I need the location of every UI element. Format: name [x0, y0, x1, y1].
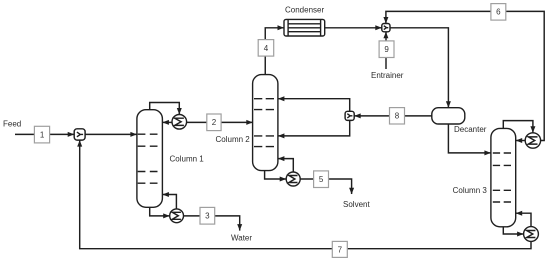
wire Column 1 bottoms to reboiler E2 — [150, 206, 170, 216]
condenser E1 (Column 1 overhead exchanger) — [172, 115, 187, 130]
wire reflux E3 to Column 3 — [516, 140, 526, 142]
mixer B2 (entrainer/recycle mixer) — [382, 24, 390, 32]
stream box 7 — [332, 241, 347, 257]
svg-text:Feed: Feed — [3, 119, 21, 128]
splitter S1 (decanter recycle splitter) — [345, 111, 354, 120]
arrowhead into mixer B2 left — [375, 25, 382, 30]
svg-text:5: 5 — [319, 175, 324, 184]
arrowhead stream 8 into splitter S1 — [354, 113, 361, 118]
stream box 9 — [379, 41, 394, 58]
svg-text:4: 4 — [264, 44, 269, 53]
arrowhead into condenser E3 top — [530, 126, 535, 133]
arrowhead decanter bottoms into Column 3 — [484, 150, 491, 155]
reboiler E4 (Column 3) — [524, 227, 539, 242]
arrowhead stream 3 down to Water — [237, 224, 242, 231]
wire vapor return E5 to Column 2 — [278, 159, 293, 173]
wire Entrainer stream 9 to mixer B2 — [385, 32, 387, 69]
wire distillate E1 through stream 2 to Column 2 — [187, 121, 253, 123]
svg-text:Entrainer: Entrainer — [371, 71, 404, 80]
stream box 5 — [314, 171, 329, 188]
svg-text:2: 2 — [212, 118, 217, 127]
wire mixer B1 to Column 1 — [85, 133, 137, 135]
wire Column 2 bottoms to reboiler E5 — [265, 169, 287, 179]
stream box 3 — [200, 207, 215, 224]
svg-text:Water: Water — [231, 233, 252, 242]
arrowhead vapor return into Column 2 — [278, 156, 285, 161]
wire reflux E1 to Column 1 — [162, 121, 172, 123]
arrowhead into reboiler E5 left — [280, 177, 287, 182]
column C3 trays — [493, 153, 511, 202]
arrowhead into Decanter top — [446, 101, 451, 108]
arrowhead vapor return into Column 1 — [162, 192, 169, 197]
svg-text:8: 8 — [395, 112, 400, 121]
svg-text:Decanter: Decanter — [454, 125, 487, 134]
wire Column 3 overhead to condenser E3 — [503, 121, 533, 133]
stream box 4 — [258, 40, 274, 57]
arrowhead stream 5 down to Solvent — [349, 188, 354, 195]
wire feed to mixer B1 — [15, 133, 74, 135]
column C2 vessel — [253, 75, 278, 171]
arrowhead into reboiler E4 left — [517, 232, 524, 237]
wire vapor return E4 to Column 3 — [516, 213, 531, 227]
svg-text:Column 2: Column 2 — [216, 135, 251, 144]
wire Decanter through stream 8 to splitter S1 — [354, 115, 432, 117]
reboiler E2 (Column 1) — [170, 209, 184, 223]
svg-text:Solvent: Solvent — [343, 200, 370, 209]
arrowhead into condenser E1 top — [177, 108, 182, 115]
arrowhead into Condenser left — [278, 25, 285, 30]
stream box 1 — [34, 126, 49, 143]
wire mixer B2 to Decanter — [390, 28, 448, 108]
wire splitter S1 upper branch to Column 2 — [278, 99, 350, 112]
mixer B1 (feed mixer) — [74, 129, 85, 140]
arrowhead upper branch into Column 2 — [278, 96, 285, 101]
arrowhead stream 2 into Column 2 — [246, 120, 253, 125]
svg-text:9: 9 — [384, 45, 389, 54]
column C1 vessel — [137, 110, 163, 208]
wire E4 bottoms recycle stream 7 to mixer B1 — [80, 140, 531, 249]
arrowhead stream 6 into mixer B2 top — [383, 17, 388, 24]
wire Column 1 overhead to condenser E1 — [150, 103, 180, 115]
column C2 trays — [254, 99, 274, 147]
arrowhead reflux into Column 1 — [162, 120, 169, 125]
wire E5 through stream 5 to Solvent — [300, 179, 351, 194]
arrowhead entrainer into mixer B2 bottom — [383, 32, 388, 39]
wire E2 through stream 3 to Water — [184, 216, 240, 231]
svg-text:1: 1 — [40, 131, 45, 140]
svg-text:3: 3 — [205, 212, 210, 221]
wire stream 6 from condenser E3 to mixer B2 — [386, 11, 544, 140]
svg-text:Column 1: Column 1 — [170, 155, 205, 164]
arrowhead reflux into Column 3 — [516, 138, 523, 143]
shell-and-tube Condenser icon — [284, 19, 325, 36]
reboiler E5 (Column 2) — [286, 172, 300, 186]
wire Column 3 bottoms to reboiler E4 — [503, 224, 523, 234]
arrowhead vapor return into Column 3 — [516, 211, 523, 216]
arrowhead recycle stream 7 into mixer B1 bottom — [77, 140, 82, 147]
svg-text:Condenser: Condenser — [285, 6, 324, 15]
svg-text:7: 7 — [338, 245, 343, 254]
decanter vessel — [432, 108, 465, 124]
wire Decanter bottoms to Column 3 — [448, 124, 491, 153]
arrowhead into mixer B1 left — [68, 132, 75, 137]
wire Condenser to mixer B2 — [325, 27, 382, 29]
column C1 trays — [138, 134, 158, 183]
stream box 2 — [207, 114, 221, 131]
svg-text:Column 3: Column 3 — [453, 186, 488, 195]
wire splitter S1 lower branch to Column 2 — [278, 120, 350, 135]
arrowhead into reboiler E2 left — [163, 213, 170, 218]
stream box 6 — [491, 4, 506, 21]
arrowhead lower branch into Column 2 — [278, 133, 285, 138]
condenser E3 (Column 3 overhead exchanger) — [525, 133, 540, 148]
wire Column 2 overhead riser to Condenser — [265, 28, 284, 76]
stream box 8 — [390, 108, 405, 124]
column C3 vessel — [491, 128, 516, 226]
arrowhead into Column 1 feed — [130, 132, 137, 137]
wire vapor return E2 to Column 1 — [162, 195, 176, 209]
svg-text:6: 6 — [496, 8, 501, 17]
